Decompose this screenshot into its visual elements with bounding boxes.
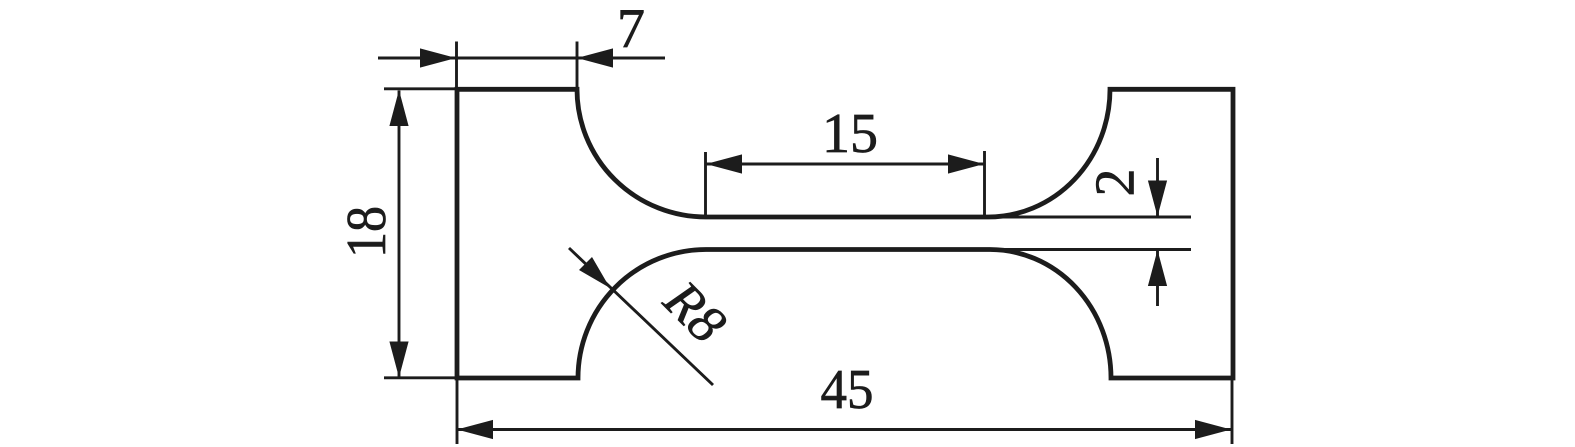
specimen outline: [457, 89, 1233, 378]
dim 7 arrowhead left (points right): [420, 48, 456, 67]
dim 2 extension line bottom: [990, 248, 1191, 251]
svg-text:R8: R8: [652, 269, 738, 355]
R8 leader arrowhead (points down-right): [579, 257, 610, 288]
dim 15 extension line left: [704, 152, 707, 215]
dim 2 extension line top: [990, 216, 1191, 219]
dim 2 dimension line upper tail: [1156, 158, 1159, 216]
dim 2 arrowhead bottom (points up): [1148, 250, 1167, 286]
dim 18 arrowhead bottom (points down): [389, 342, 408, 378]
dim 15 arrowhead left (points left): [706, 154, 742, 173]
dim 45 extension line right: [1231, 380, 1234, 444]
dim 15 dimension line: [706, 163, 984, 166]
dim 45 arrowhead left (points left): [457, 420, 493, 439]
dim 45 extension line left: [456, 380, 459, 444]
dim 45 dimension line: [457, 428, 1231, 431]
svg-text:7: 7: [617, 0, 645, 60]
dim 7 dimension line: [378, 57, 665, 60]
dim 15 arrowhead right (points right): [948, 154, 984, 173]
R8 leader line: [569, 248, 713, 385]
dim 18 dimension line: [398, 91, 401, 378]
svg-text:15: 15: [822, 103, 878, 165]
dim 45 arrowhead right (points right): [1195, 420, 1231, 439]
dim 18 extension line bottom: [384, 376, 455, 379]
svg-text:2: 2: [1085, 169, 1147, 197]
dim 7 extension line left: [455, 42, 458, 90]
dim 18 extension line top: [384, 87, 455, 90]
dim 2 arrowhead top (points down): [1148, 181, 1167, 217]
svg-text:18: 18: [336, 206, 398, 258]
svg-text:45: 45: [821, 359, 874, 421]
dim 15 extension line right: [983, 151, 986, 215]
dim 18 arrowhead top (points up): [389, 90, 408, 126]
dim 7 arrowhead right (points left): [577, 48, 613, 67]
dim 2 dimension line lower tail: [1156, 251, 1159, 307]
dim 7 extension line right: [576, 42, 579, 90]
